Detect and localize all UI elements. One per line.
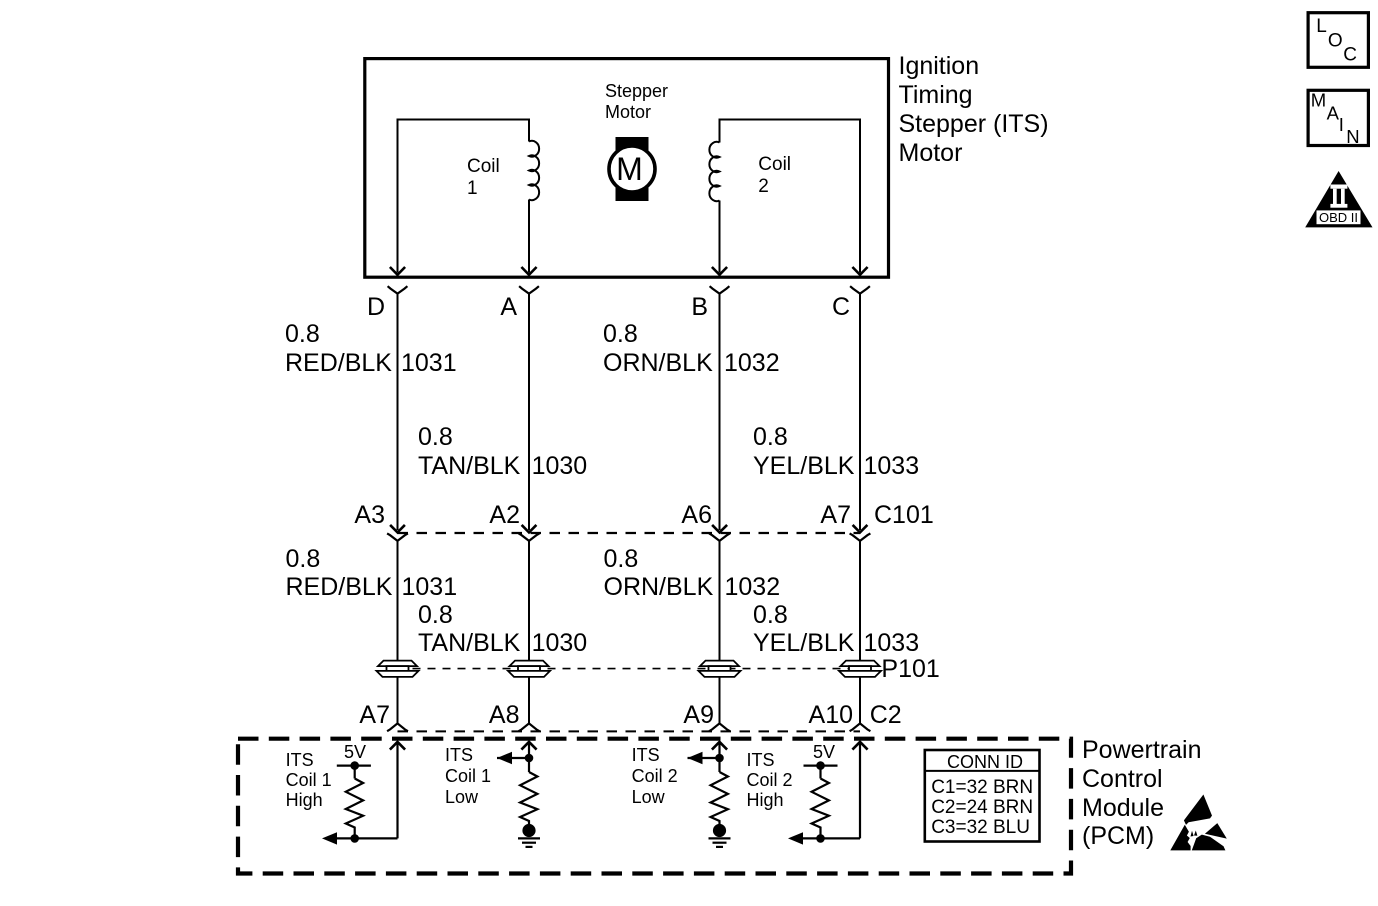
svg-text:L: L	[1316, 16, 1327, 37]
svg-text:O: O	[1328, 30, 1343, 51]
svg-text:N: N	[1346, 126, 1359, 147]
svg-text:I: I	[1339, 114, 1344, 135]
svg-text:OBD II: OBD II	[1319, 210, 1358, 225]
svg-text:M: M	[616, 151, 643, 187]
svg-text:C: C	[1343, 45, 1357, 66]
svg-text:A: A	[1327, 103, 1340, 124]
svg-text:M: M	[1311, 90, 1326, 111]
